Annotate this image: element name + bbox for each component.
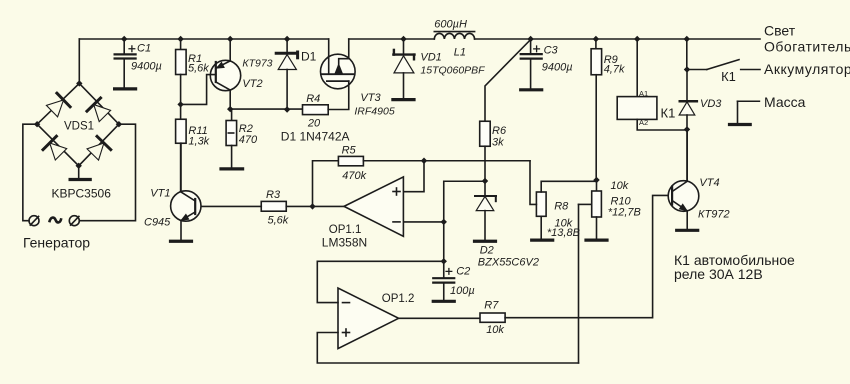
svg-text:К1: К1: [721, 69, 736, 84]
svg-text:15TQ060PBF: 15TQ060PBF: [420, 64, 485, 76]
svg-text:А1: А1: [639, 89, 648, 98]
svg-text:Аккумулятор: Аккумулятор: [764, 61, 850, 77]
svg-text:R8: R8: [554, 201, 569, 213]
svg-text:VD1: VD1: [420, 51, 441, 63]
svg-text:C2: C2: [456, 266, 470, 278]
svg-text:OP1.1: OP1.1: [329, 224, 362, 236]
svg-text:VT3: VT3: [360, 92, 381, 104]
svg-text:L1: L1: [454, 47, 466, 59]
svg-text:КТ972: КТ972: [698, 209, 730, 221]
svg-text:R4: R4: [306, 93, 320, 105]
svg-text:600µH: 600µH: [434, 18, 467, 30]
svg-text:*13,8В: *13,8В: [547, 227, 580, 239]
svg-text:C945: C945: [144, 217, 171, 229]
svg-text:Обогатитель: Обогатитель: [764, 39, 850, 55]
svg-text:Масса: Масса: [764, 94, 806, 110]
svg-text:5,6k: 5,6k: [268, 215, 289, 227]
svg-text:*12,7В: *12,7В: [608, 207, 641, 219]
svg-text:470: 470: [239, 134, 258, 146]
svg-text:К1: К1: [661, 106, 676, 121]
svg-text:1,3k: 1,3k: [188, 136, 209, 148]
svg-text:VT2: VT2: [242, 78, 262, 90]
svg-text:KBPC3506: KBPC3506: [52, 186, 112, 200]
svg-text:КТ973: КТ973: [242, 57, 272, 69]
svg-text:VT1: VT1: [150, 188, 170, 200]
svg-text:R7: R7: [484, 300, 499, 312]
svg-text:R5: R5: [342, 144, 357, 156]
svg-text:10k: 10k: [486, 324, 504, 336]
svg-text:5,6k: 5,6k: [188, 63, 209, 75]
svg-text:D1: D1: [301, 50, 317, 64]
svg-text:R6: R6: [492, 125, 507, 137]
svg-text:C1: C1: [137, 43, 151, 55]
svg-text:C3: C3: [544, 44, 559, 56]
svg-text:VD3: VD3: [700, 98, 722, 110]
svg-text:Свет: Свет: [764, 23, 796, 39]
svg-text:Генератор: Генератор: [23, 235, 90, 251]
svg-text:D1 1N4742A: D1 1N4742A: [281, 129, 350, 143]
svg-text:20: 20: [307, 117, 321, 129]
svg-text:3k: 3k: [492, 137, 504, 149]
svg-text:9400µ: 9400µ: [542, 61, 573, 73]
svg-text:10k: 10k: [611, 180, 629, 192]
svg-text:100µ: 100µ: [450, 285, 475, 297]
svg-text:LM358N: LM358N: [322, 236, 367, 250]
svg-text:4,7k: 4,7k: [604, 64, 625, 76]
svg-text:9400µ: 9400µ: [131, 60, 162, 72]
svg-text:VDS1: VDS1: [64, 120, 94, 132]
svg-text:R3: R3: [266, 189, 281, 201]
svg-text:D2: D2: [480, 245, 494, 257]
svg-text:IRF4905: IRF4905: [354, 106, 394, 118]
svg-text:реле 30А 12В: реле 30А 12В: [674, 266, 763, 282]
svg-text:BZX55C6V2: BZX55C6V2: [478, 256, 539, 268]
svg-text:А2: А2: [639, 118, 648, 127]
svg-text:OP1.2: OP1.2: [382, 293, 415, 305]
svg-text:470k: 470k: [342, 170, 366, 182]
svg-text:VT4: VT4: [699, 177, 719, 189]
